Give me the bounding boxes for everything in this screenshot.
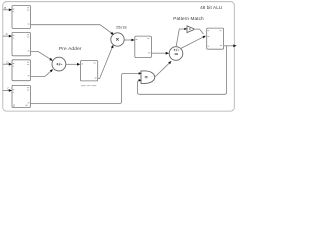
M register	[135, 36, 152, 58]
wire M register to ALU	[151, 52, 166, 54]
arrowhead mux bottom input (feedback)	[139, 79, 142, 82]
multiplier x symbol	[116, 38, 119, 41]
svg-text:B: B	[4, 6, 6, 10]
svg-text:Pre Adder: Pre Adder	[59, 46, 82, 52]
wire register D to pre-adder	[31, 70, 52, 76]
wire register B to multiplier	[31, 25, 113, 34]
wire input D	[3, 63, 10, 65]
register C	[12, 85, 31, 107]
wire multiplier to M register	[125, 39, 133, 41]
arrowhead into multiplier upper input	[110, 32, 114, 35]
register C pin marks	[13, 87, 30, 103]
wire input C	[3, 90, 10, 92]
arrowhead into pre-adder upper input	[49, 58, 53, 61]
pattern detect triangle	[187, 26, 194, 33]
arrowhead into M register	[131, 39, 134, 42]
AD register pin marks	[81, 63, 96, 79]
pattern detect = symbol	[189, 28, 191, 29]
register D	[12, 60, 31, 81]
mux feeding ALU second input	[141, 71, 155, 84]
outer frame of DSP slice	[3, 2, 235, 111]
wire ALU to P register	[180, 37, 203, 48]
register B pin marks	[13, 7, 30, 24]
arrowhead into register D	[9, 63, 12, 66]
wire input B	[3, 9, 10, 11]
P register pin marks	[208, 30, 222, 46]
multiplier circle	[111, 33, 124, 46]
ALU circle	[169, 47, 183, 61]
arrowhead into ALU left input	[166, 52, 169, 55]
register B	[12, 6, 31, 29]
svg-text:A: A	[6, 32, 8, 36]
pre-adder +/- symbol	[56, 63, 62, 66]
AD register (pre-adder output register)	[81, 61, 98, 81]
svg-text:48 bit ALU: 48 bit ALU	[200, 5, 222, 10]
arrowhead into register B	[9, 8, 12, 11]
wire AD register to multiplier	[98, 47, 113, 79]
faint pin text under AD register	[81, 85, 96, 86]
svg-text:Pattern Match: Pattern Match	[173, 16, 204, 21]
wire register C along bottom up to mux	[31, 73, 140, 103]
ALU +/- and = symbols	[174, 49, 180, 55]
register A pin marks	[13, 34, 30, 51]
wire mux to ALU	[155, 63, 170, 77]
wire pattern detect to P register	[194, 29, 203, 34]
mux = symbol	[145, 76, 148, 77]
wire P output feedback down and left to mux	[138, 46, 227, 95]
arrowhead into P register	[202, 36, 206, 39]
M register pin marks	[136, 38, 151, 53]
wire P register output	[224, 45, 234, 47]
svg-text:25x18: 25x18	[116, 24, 127, 29]
wire register A to pre-adder	[31, 51, 52, 59]
arrowhead into pattern detect	[184, 28, 187, 30]
arrowhead into register A	[9, 35, 12, 38]
arrowhead into multiplier lower input	[111, 45, 114, 49]
arrowhead into register C	[9, 89, 12, 92]
wire pre-adder to AD register	[66, 63, 78, 65]
register C bottom pin marks	[13, 105, 28, 107]
wire input A	[3, 35, 10, 37]
P register	[207, 28, 224, 49]
wire ALU up to pattern detect	[176, 29, 185, 47]
arrowhead into ALU bottom input	[168, 61, 171, 64]
register A	[12, 32, 31, 55]
arrowhead into pre-adder lower input	[50, 69, 53, 72]
arrowhead P output at frame	[233, 44, 236, 47]
arrowhead mux top input (C)	[139, 72, 142, 75]
register D pin marks	[13, 62, 30, 77]
arrowhead into AD register	[77, 63, 80, 66]
pre-adder circle	[52, 57, 66, 71]
